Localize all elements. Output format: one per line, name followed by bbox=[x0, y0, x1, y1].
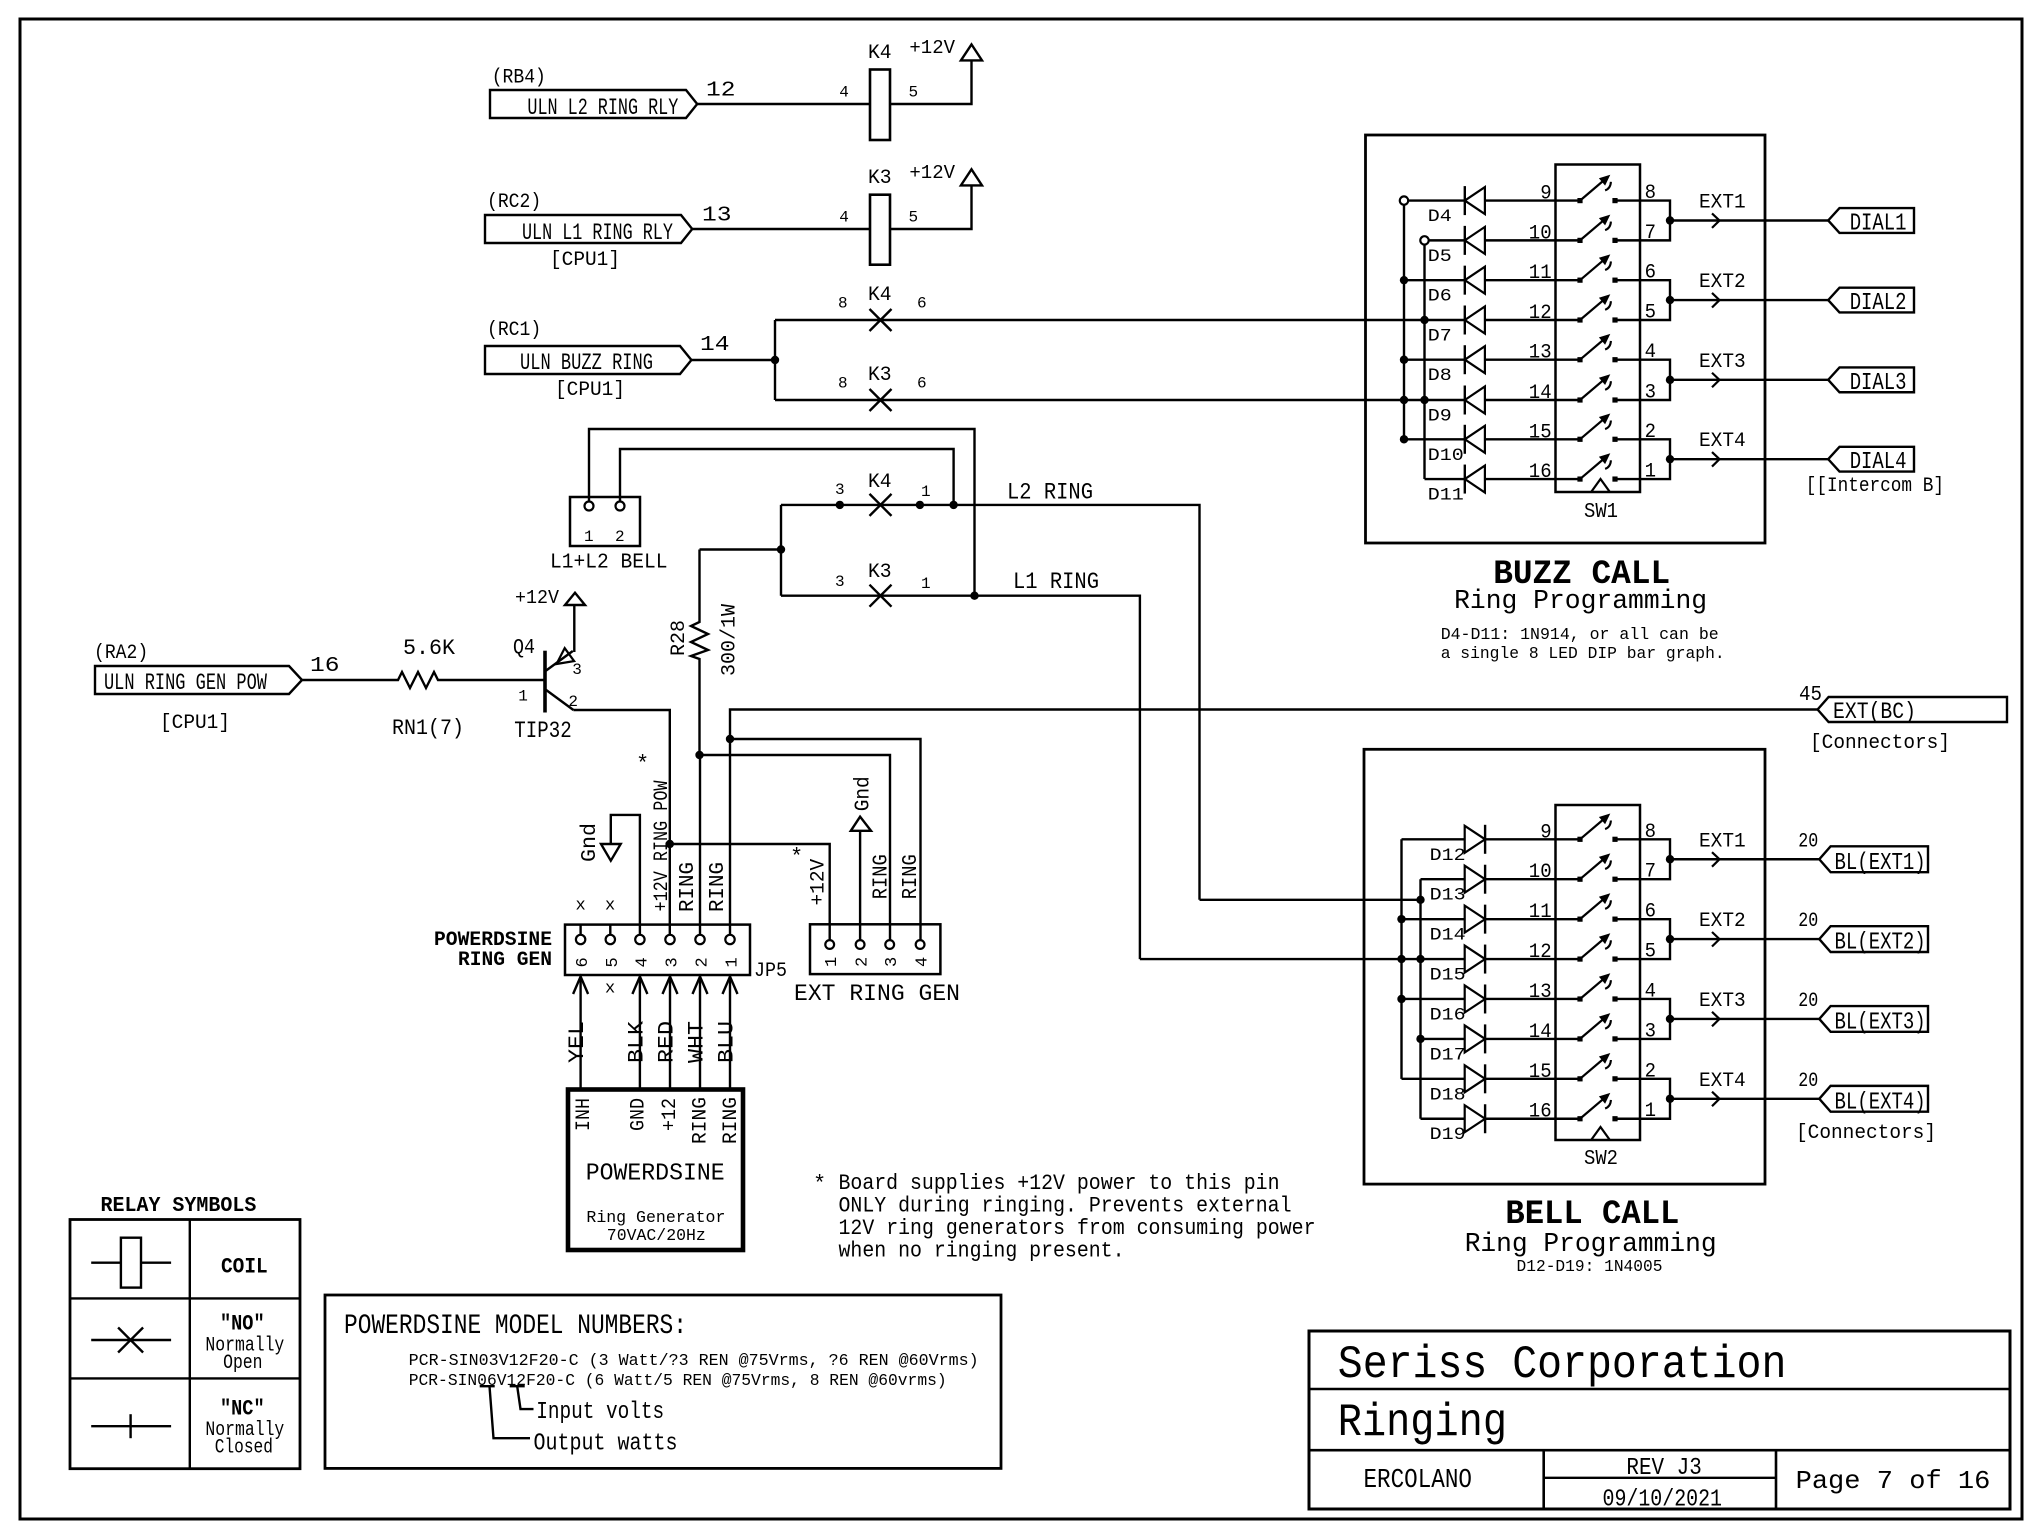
svg-text:D15: D15 bbox=[1430, 966, 1466, 986]
70VAC/20Hz label bbox=[607, 1227, 706, 1246]
wire diode D6 cathode line bbox=[1404, 279, 1465, 281]
svg-text:9: 9 bbox=[1540, 821, 1551, 844]
INH rotated pin label bbox=[573, 1098, 596, 1131]
signal flag ULN L2 RING RLY bbox=[490, 90, 697, 121]
RING rotated label (EXT pin3) bbox=[871, 854, 894, 899]
wire SW2 pin 7 out bbox=[1615, 859, 1670, 879]
POWERDSINE title bbox=[586, 1161, 725, 1188]
pin 1 label (Q4) bbox=[518, 687, 528, 705]
legend NO contact symbol bbox=[91, 1328, 171, 1353]
wire D19 anode line bbox=[1421, 1118, 1465, 1120]
svg-text:K4: K4 bbox=[868, 471, 892, 494]
transistor Q4 label bbox=[513, 637, 535, 660]
NO contact K3 L1 (X) bbox=[870, 585, 892, 607]
svg-text:RING: RING bbox=[707, 862, 730, 912]
svg-text:GND: GND bbox=[628, 1098, 651, 1131]
svg-text:ERCOLANO: ERCOLANO bbox=[1364, 1466, 1473, 1496]
wire BELL pin2 to L2 RING row bbox=[620, 449, 954, 505]
SW1 pin 3 label bbox=[1645, 382, 1656, 405]
svg-text:[Connectors]: [Connectors] bbox=[1810, 732, 1950, 755]
net label EXT2 (buzz) bbox=[1699, 271, 1746, 294]
resistor R28 label bbox=[668, 620, 691, 656]
wire EXT3 to DIAL3 bbox=[1670, 373, 1828, 388]
EXT RING GEN pin 2 number bbox=[854, 957, 873, 967]
svg-text:5: 5 bbox=[909, 209, 919, 227]
svg-text:when no ringing present.: when no ringing present. bbox=[839, 1239, 1125, 1264]
pin 1 label (K3) bbox=[921, 575, 931, 593]
switch SW2 element 14-3 bbox=[1577, 1013, 1617, 1041]
SW1 label bbox=[1584, 501, 1618, 524]
diode D10 bbox=[1465, 425, 1485, 454]
+12V label bbox=[909, 37, 955, 59]
SW2 pin 8 label bbox=[1645, 821, 1656, 844]
svg-text:9: 9 bbox=[1540, 183, 1551, 206]
wire L2 RING row bbox=[781, 505, 1200, 900]
wire POWERDSINE to JP5 (WHT) bbox=[693, 977, 708, 1090]
power symbol +12V (K4) bbox=[961, 44, 982, 60]
svg-text:12: 12 bbox=[1529, 302, 1552, 325]
page number label bbox=[1796, 1466, 1991, 1496]
svg-text:1: 1 bbox=[584, 528, 594, 546]
JP5 pin 6 circle bbox=[576, 935, 585, 944]
wire EXT1 to BL(EXT1) bbox=[1670, 852, 1819, 867]
svg-text:x: x bbox=[576, 897, 586, 916]
diode D7 label bbox=[1428, 327, 1452, 347]
wire R28 bottom bbox=[698, 660, 700, 755]
svg-text:POWERDSINE MODEL NUMBERS:: POWERDSINE MODEL NUMBERS: bbox=[344, 1311, 687, 1342]
wire K3 contact branch row (to D9) bbox=[775, 399, 1465, 401]
buzz rail A bbox=[1400, 196, 1408, 439]
net label EXT4 (bell) bbox=[1699, 1070, 1746, 1093]
junction dot rail B row 12 bbox=[1420, 316, 1428, 324]
NO contact K3 (X) bbox=[870, 389, 892, 411]
JP5 pin 5 number bbox=[604, 957, 623, 967]
SW2 pin 11 label bbox=[1529, 901, 1552, 924]
wire D14 cathode to SW2 bbox=[1485, 918, 1580, 920]
svg-text:POWERDSINE: POWERDSINE bbox=[586, 1161, 725, 1188]
svg-text:15: 15 bbox=[1529, 1061, 1552, 1084]
wire JP5 pin1 up bbox=[729, 739, 731, 935]
svg-text:EXT4: EXT4 bbox=[1699, 430, 1746, 453]
signal flag EXT(BC) bbox=[1818, 697, 2007, 725]
junction dot EXT3 (bell) bbox=[1666, 1015, 1674, 1023]
legend "NC" label bbox=[220, 1396, 265, 1421]
leader Input volts bbox=[510, 1386, 534, 1409]
connector EXT RING GEN box bbox=[810, 924, 940, 974]
wire SW2 pin 3 out bbox=[1615, 1019, 1670, 1039]
pin 3 label (Q4) bbox=[572, 661, 582, 679]
svg-text:14: 14 bbox=[700, 334, 730, 357]
diode D11 bbox=[1465, 465, 1485, 494]
wire SW2 pin 5 out bbox=[1615, 939, 1670, 959]
DIP switch SW1 box bbox=[1556, 165, 1641, 493]
wire BELL pin1 to L1 RING row bbox=[589, 429, 975, 596]
wire SW2 pin 2 out bbox=[1615, 1079, 1670, 1099]
Output watts label bbox=[534, 1431, 678, 1458]
relay coil K3 bbox=[870, 195, 890, 265]
pin 8 label (K3) bbox=[838, 375, 848, 393]
[[Intercom B] label bbox=[1806, 475, 1944, 498]
wire D7 anode to SW1 bbox=[1485, 319, 1580, 321]
svg-text:3: 3 bbox=[572, 661, 582, 679]
junction dot rail B row 14 bbox=[1416, 1035, 1424, 1043]
svg-text:2: 2 bbox=[854, 957, 873, 967]
x mark below JP5 pin5 bbox=[605, 980, 615, 999]
wire D4 anode to SW1 bbox=[1485, 199, 1580, 201]
svg-text:EXT1: EXT1 bbox=[1699, 830, 1746, 853]
RING rotated pin label 2 bbox=[720, 1097, 743, 1144]
POWERDSINE MODEL NUMBERS heading bbox=[344, 1311, 687, 1342]
svg-text:WHT: WHT bbox=[685, 1021, 710, 1063]
svg-text:RED: RED bbox=[655, 1021, 680, 1063]
svg-text:14: 14 bbox=[1529, 382, 1552, 405]
SW2 pin 10 label bbox=[1529, 861, 1552, 884]
svg-text:6: 6 bbox=[574, 957, 593, 967]
Q4 emitter diagonal bbox=[546, 651, 573, 671]
svg-text:EXT(BC): EXT(BC) bbox=[1833, 699, 1916, 725]
svg-text:SW2: SW2 bbox=[1584, 1148, 1618, 1171]
legend "NO" label bbox=[220, 1312, 265, 1337]
svg-text:+12V: +12V bbox=[515, 587, 560, 609]
EXT RING GEN pin 4 circle bbox=[916, 940, 925, 949]
svg-text:1: 1 bbox=[823, 957, 842, 967]
wire SW1 pin 2 out bbox=[1615, 439, 1670, 459]
svg-text:ULN L2 RING RLY: ULN L2 RING RLY bbox=[527, 95, 678, 121]
svg-text:D11: D11 bbox=[1428, 486, 1464, 506]
svg-text:2: 2 bbox=[694, 957, 713, 967]
company name Seriss Corporation bbox=[1338, 1339, 1787, 1391]
svg-text:Seriss Corporation: Seriss Corporation bbox=[1338, 1339, 1787, 1391]
junction dot EXT4 (buzz) bbox=[1666, 455, 1674, 463]
terminal dot K4 pin3 bbox=[836, 501, 844, 509]
value 5.6K label bbox=[403, 636, 456, 661]
diode D6 label bbox=[1428, 287, 1452, 307]
SW1 pin 1 label bbox=[1645, 461, 1656, 484]
BELL CALL outer box bbox=[1364, 749, 1765, 1184]
bell rail B bbox=[1419, 879, 1421, 1119]
node (RB4) label bbox=[492, 67, 546, 90]
RING rotated pin label 1 bbox=[690, 1097, 713, 1144]
wire L1 RING row bbox=[781, 596, 1140, 959]
pin 5 label bbox=[909, 209, 919, 227]
ground symbol (JP5 pin4) bbox=[601, 844, 621, 861]
wire junction vertical bbox=[774, 320, 776, 400]
wire color label RED bbox=[655, 1021, 680, 1063]
SW1 notch bbox=[1592, 479, 1610, 492]
svg-text:RELAY SYMBOLS: RELAY SYMBOLS bbox=[101, 1195, 257, 1218]
SW2 pin 7 label bbox=[1645, 861, 1656, 884]
svg-text:2: 2 bbox=[568, 693, 578, 711]
svg-text:Closed: Closed bbox=[215, 1437, 273, 1460]
diode D19 label bbox=[1430, 1125, 1466, 1145]
wire JP5 pin1 to EXT pin4 bbox=[730, 739, 921, 940]
net label EXT3 (bell) bbox=[1699, 990, 1746, 1013]
svg-text:K3: K3 bbox=[868, 561, 892, 584]
wire SW1 pin 5 out bbox=[1615, 300, 1670, 320]
pin 3 label (K3) bbox=[835, 573, 845, 591]
svg-text:DIAL3: DIAL3 bbox=[1850, 370, 1907, 397]
junction dot rail A row 13 bbox=[1397, 995, 1405, 1003]
svg-text:11: 11 bbox=[1529, 262, 1552, 285]
note line 1 bbox=[839, 1171, 1280, 1196]
wire emitter to +12V bbox=[573, 605, 575, 652]
GND rotated pin label bbox=[628, 1098, 651, 1131]
svg-text:EXT2: EXT2 bbox=[1699, 910, 1746, 933]
SW1 pin 2 label bbox=[1645, 421, 1656, 444]
diode D7 bbox=[1465, 306, 1485, 335]
svg-text:D4-D11: 1N914, or all can be: D4-D11: 1N914, or all can be bbox=[1441, 625, 1719, 644]
svg-text:BELL CALL: BELL CALL bbox=[1505, 1196, 1679, 1234]
svg-text:6: 6 bbox=[917, 375, 927, 393]
JP5 pin 3 circle bbox=[665, 935, 674, 944]
junction dot at 953.6,504.9 bbox=[949, 501, 957, 509]
signal flag DIAL2 bbox=[1828, 288, 1914, 317]
legend NC contact symbol bbox=[91, 1414, 171, 1438]
diode D9 label bbox=[1428, 407, 1452, 427]
svg-text:COIL: COIL bbox=[221, 1254, 268, 1279]
wire collector to JP5 pin3 bbox=[573, 710, 669, 935]
SW1 pin 5 label bbox=[1645, 302, 1656, 325]
Q4 type label TIP32 bbox=[514, 718, 571, 744]
diode D14 bbox=[1465, 905, 1485, 934]
contact K3 label (L1) bbox=[868, 561, 892, 584]
diode D12 label bbox=[1430, 846, 1466, 866]
svg-text:14: 14 bbox=[1529, 1021, 1552, 1044]
svg-text:Ring Programming: Ring Programming bbox=[1454, 587, 1707, 617]
REV J3 label bbox=[1626, 1455, 1701, 1482]
pin 16 label bbox=[310, 655, 340, 678]
wire JP5 pin4 to Gnd bbox=[611, 815, 640, 935]
switch SW1 element 16-1 bbox=[1577, 453, 1617, 481]
RING rotated label (JP5 pin1) bbox=[707, 862, 730, 912]
wire D12 anode line bbox=[1402, 838, 1465, 840]
wire D13 cathode to SW2 bbox=[1485, 878, 1580, 880]
pin 6 label (K3) bbox=[917, 375, 927, 393]
wire SW1 pin 3 out bbox=[1615, 380, 1670, 400]
JP5 pin 6 number bbox=[574, 957, 593, 967]
svg-text:20: 20 bbox=[1798, 830, 1818, 853]
EXT RING GEN pin 3 circle bbox=[885, 940, 894, 949]
switch SW2 element 11-6 bbox=[1577, 893, 1617, 921]
svg-text:3: 3 bbox=[835, 573, 845, 591]
wire D10 anode to SW1 bbox=[1485, 438, 1580, 440]
wire EXT pin2 to Gnd bbox=[859, 831, 861, 940]
svg-text:EXT RING GEN: EXT RING GEN bbox=[794, 981, 960, 1007]
resistor RN1(7) label bbox=[392, 716, 464, 741]
signal flag BL(EXT3) bbox=[1819, 1006, 1928, 1036]
SW1 pin 7 label bbox=[1645, 222, 1656, 245]
wire SW1 pin 8 out bbox=[1615, 201, 1670, 221]
switch SW2 element 12-5 bbox=[1577, 933, 1617, 961]
switch SW1 element 11-6 bbox=[1577, 254, 1617, 282]
diode D4 bbox=[1465, 186, 1485, 215]
diode D19 bbox=[1465, 1104, 1485, 1133]
svg-text:16: 16 bbox=[310, 655, 340, 678]
model line 1 bbox=[409, 1351, 979, 1370]
svg-text:JP5: JP5 bbox=[754, 960, 787, 983]
svg-text:[Connectors]: [Connectors] bbox=[1796, 1122, 1936, 1145]
pin 8 label (K4) bbox=[838, 295, 848, 313]
svg-text:D7: D7 bbox=[1428, 327, 1452, 347]
diode D14 label bbox=[1430, 926, 1466, 946]
JP5 pin 1 number bbox=[724, 957, 743, 967]
svg-text:REV J3: REV J3 bbox=[1626, 1455, 1701, 1482]
SW2 pin 9 label bbox=[1540, 821, 1551, 844]
coil K4 label bbox=[868, 42, 892, 65]
svg-text:RN1(7): RN1(7) bbox=[392, 716, 464, 741]
svg-text:INH: INH bbox=[573, 1098, 596, 1131]
svg-text:D18: D18 bbox=[1430, 1085, 1466, 1105]
Input volts label bbox=[536, 1399, 664, 1426]
svg-text:16: 16 bbox=[1529, 461, 1552, 484]
wire diode D4 cathode line bbox=[1408, 199, 1465, 201]
legend Normally Open label bbox=[205, 1334, 284, 1375]
asterisk near EXT pin1 bbox=[790, 845, 803, 870]
diode D16 label bbox=[1430, 1005, 1466, 1025]
svg-text:11: 11 bbox=[1529, 901, 1552, 924]
diode D16 bbox=[1465, 984, 1485, 1013]
signal flag BL(EXT4) bbox=[1819, 1086, 1928, 1116]
svg-text:(RA2): (RA2) bbox=[94, 642, 148, 665]
svg-text:ONLY during ringing. Prevents: ONLY during ringing. Prevents external bbox=[839, 1194, 1292, 1219]
wire R28 top bbox=[698, 550, 700, 621]
+12V label (Q4) bbox=[515, 587, 560, 609]
wire SW2 pin 6 out bbox=[1615, 919, 1670, 939]
wire +12V RING POW to EXT pin1 bbox=[670, 844, 830, 940]
SW1 pin 9 label bbox=[1540, 183, 1551, 206]
svg-text:3: 3 bbox=[835, 481, 845, 499]
SW2 pin 2 label bbox=[1645, 1060, 1656, 1083]
diode D5 label bbox=[1428, 247, 1452, 267]
SW1 pin 6 label bbox=[1645, 262, 1656, 285]
wire D5 anode to SW1 bbox=[1485, 239, 1580, 241]
svg-text:L1+L2 BELL: L1+L2 BELL bbox=[550, 552, 668, 575]
SW2 pin 15 label bbox=[1529, 1061, 1552, 1084]
svg-text:*: * bbox=[813, 1172, 826, 1197]
junction dot rail A row 14 bbox=[1400, 396, 1408, 404]
switch SW1 element 10-7 bbox=[1577, 215, 1617, 243]
svg-text:Ring Generator: Ring Generator bbox=[586, 1209, 725, 1228]
wire SW2 pin 8 out bbox=[1615, 839, 1670, 859]
Ring Programming subtitle (buzz) bbox=[1454, 587, 1707, 617]
wire EXT2 to BL(EXT2) bbox=[1670, 932, 1819, 947]
wire D15 cathode to SW2 bbox=[1485, 958, 1580, 960]
svg-text:Open: Open bbox=[223, 1352, 262, 1375]
wire L2 RING entry (bell) bbox=[1200, 899, 1421, 901]
diode D17 bbox=[1465, 1024, 1485, 1053]
wire JP5 pin2 up to R28 bbox=[699, 755, 701, 935]
wire D16 anode line bbox=[1402, 998, 1465, 1000]
junction dot rail A row 11 bbox=[1400, 276, 1408, 284]
SW2 notch bbox=[1592, 1127, 1610, 1140]
L1+L2 BELL pin 1 circle bbox=[585, 502, 594, 511]
POWERDSINE ring generator box bbox=[568, 1090, 743, 1251]
svg-text:BL(EXT4): BL(EXT4) bbox=[1835, 1089, 1926, 1116]
signal flag DIAL1 bbox=[1828, 208, 1914, 237]
model numbers box bbox=[325, 1295, 1001, 1468]
switch SW2 element 10-7 bbox=[1577, 853, 1617, 881]
power symbol +12V (Q4) bbox=[565, 593, 585, 605]
BUZZ CALL title bbox=[1493, 556, 1670, 594]
svg-text:300/1W: 300/1W bbox=[719, 604, 742, 676]
SW2 pin 14 label bbox=[1529, 1021, 1552, 1044]
svg-text:Q4: Q4 bbox=[513, 637, 535, 660]
x mark above JP5 pin6 bbox=[576, 897, 586, 916]
terminal dot K4 pin1 bbox=[916, 501, 924, 509]
svg-text:ULN BUZZ RING: ULN BUZZ RING bbox=[520, 350, 653, 376]
SW2 pin 12 label bbox=[1529, 941, 1552, 964]
coil K3 label bbox=[868, 167, 892, 190]
wire D12 cathode to SW2 bbox=[1485, 838, 1580, 840]
contact K4 label (L2) bbox=[868, 471, 892, 494]
JP5 ref label bbox=[754, 960, 787, 983]
junction dot rail A row 13 bbox=[1400, 356, 1408, 364]
wire EXT4 to BL(EXT4) bbox=[1670, 1092, 1819, 1107]
EXT RING GEN pin 4 number bbox=[914, 957, 933, 967]
node (RC1) label bbox=[487, 319, 541, 342]
wire SW2 pin 4 out bbox=[1615, 999, 1670, 1019]
JP5 pin 4 number bbox=[633, 957, 652, 967]
resistor R28 zigzag bbox=[691, 620, 708, 660]
RELAY SYMBOLS heading bbox=[101, 1195, 257, 1218]
svg-text:EXT4: EXT4 bbox=[1699, 1070, 1746, 1093]
SW1 pin 12 label bbox=[1529, 302, 1552, 325]
svg-text:5.6K: 5.6K bbox=[403, 636, 456, 661]
power symbol +12V (K3) bbox=[961, 169, 982, 185]
signal flag ULN RING GEN POW bbox=[95, 666, 302, 696]
wire left bracket vertical bbox=[780, 505, 782, 596]
svg-text:45: 45 bbox=[1799, 684, 1822, 707]
asterisk above +12V RING POW bbox=[636, 752, 649, 777]
wire D8 anode to SW1 bbox=[1485, 359, 1580, 361]
[CPU1] label under RA2 bbox=[160, 712, 230, 735]
svg-text:13: 13 bbox=[1529, 981, 1552, 1004]
svg-text:4: 4 bbox=[633, 957, 652, 967]
svg-text:(RC1): (RC1) bbox=[487, 319, 541, 342]
svg-text:K3: K3 bbox=[868, 364, 892, 387]
wire color label WHT bbox=[685, 1021, 710, 1063]
svg-text:12V ring generators from consu: 12V ring generators from consuming power bbox=[839, 1216, 1316, 1241]
svg-text:DIAL1: DIAL1 bbox=[1850, 210, 1907, 237]
sheet title Ringing bbox=[1338, 1397, 1507, 1449]
SW2 pin 13 label bbox=[1529, 981, 1552, 1004]
pin 20 label (EXT2) bbox=[1798, 910, 1818, 933]
net label EXT4 (buzz) bbox=[1699, 430, 1746, 453]
svg-text:+12V RING POW: +12V RING POW bbox=[651, 781, 674, 912]
svg-text:K3: K3 bbox=[868, 167, 892, 190]
svg-text:D12-D19: 1N4005: D12-D19: 1N4005 bbox=[1517, 1257, 1663, 1276]
diode D13 label bbox=[1430, 886, 1466, 906]
wire EXT4 to DIAL4 bbox=[1670, 452, 1828, 467]
diode D12 bbox=[1465, 825, 1485, 854]
node (RA2) label bbox=[94, 642, 148, 665]
wire D18 cathode to SW2 bbox=[1485, 1078, 1580, 1080]
legend COIL label bbox=[221, 1254, 268, 1279]
wire color label YEL bbox=[565, 1021, 590, 1063]
SW2 pin 16 label bbox=[1529, 1101, 1552, 1124]
junction dot rail A row 11 bbox=[1397, 915, 1405, 923]
value 300/1W label bbox=[719, 604, 742, 676]
svg-text:8: 8 bbox=[838, 295, 848, 313]
svg-text:EXT2: EXT2 bbox=[1699, 271, 1746, 294]
JP5 pin5 stub bbox=[609, 925, 611, 935]
svg-text:D13: D13 bbox=[1430, 886, 1466, 906]
diode D15 label bbox=[1430, 966, 1466, 986]
svg-text:10: 10 bbox=[1529, 861, 1552, 884]
pin 4 label bbox=[839, 209, 849, 227]
wire D17 cathode to SW2 bbox=[1485, 1038, 1580, 1040]
SW2 pin 5 label bbox=[1645, 941, 1656, 964]
